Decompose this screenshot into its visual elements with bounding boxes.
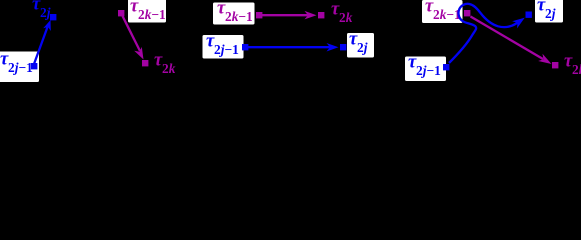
svg-text:2j: 2j <box>40 5 51 20</box>
node marker tau_2k-1 (diagram 4) <box>464 10 470 16</box>
svg-text:2k−1: 2k−1 <box>225 9 253 24</box>
wire: curved edge tau_2j-1 to tau_2j looping around tau_2k-1 (diagram 4) <box>449 4 520 63</box>
svg-text:2j−1: 2j−1 <box>214 42 239 57</box>
arrowhead at tau_2k (diagram 4) <box>538 54 551 64</box>
black page background <box>0 0 581 119</box>
arrowhead at tau_2j (diagram 4) <box>512 18 525 29</box>
svg-text:2k: 2k <box>339 10 353 25</box>
svg-text:2k: 2k <box>162 61 176 76</box>
node marker tau_2k (diagram 4) <box>552 62 558 68</box>
node marker tau_2j-1 (diagram 1) <box>31 63 37 69</box>
wire: edge tau_2k-1 to tau_2k (diagram 2) <box>123 16 141 51</box>
node marker tau_2j (diagram 4) <box>526 12 532 18</box>
white label background: tau_2j (diagram 4) <box>535 0 563 23</box>
white label background: tau_2k-1 (diagram 2) <box>128 0 166 23</box>
arrowhead at tau_2j (diagram 1) <box>43 20 51 31</box>
node marker tau_2j-1 (diagram 3 bottom) <box>242 44 248 50</box>
node marker tau_2k (diagram 3 top) <box>318 12 324 18</box>
svg-text:2j: 2j <box>357 40 368 55</box>
wire: edge tau_2j-1 to tau_2j (diagram 1) <box>34 27 48 64</box>
node marker tau_2k-1 (diagram 2) <box>118 10 124 16</box>
wire: edge tau_2k-1 to tau_2k (diagram 4) <box>471 17 544 60</box>
svg-text:2k: 2k <box>572 62 581 77</box>
white label background: tau_2j-1 (diagram 1) <box>0 52 39 83</box>
svg-text:2k−1: 2k−1 <box>433 7 461 22</box>
white label background: tau_2j-1 (diagram 4) <box>405 57 446 82</box>
svg-text:2j: 2j <box>545 6 556 21</box>
svg-text:2j−1: 2j−1 <box>416 63 441 78</box>
svg-text:2k−1: 2k−1 <box>138 7 166 22</box>
white label background: tau_2j-1 (diagram 3 bottom) <box>203 35 244 59</box>
white label background: tau_2j (diagram 3 bottom) <box>347 33 374 58</box>
node marker tau_2j-1 (diagram 4) <box>443 64 449 70</box>
arrowhead at tau_2k (diagram 2) <box>134 47 143 60</box>
white label background: tau_2k-1 (diagram 3 top) <box>213 3 255 25</box>
node marker tau_2j (diagram 3 bottom) <box>340 44 346 50</box>
wire: edge tau_2j-1 to tau_2j (diagram 3 bottom) <box>248 46 330 48</box>
node marker tau_2k-1 (diagram 3 top) <box>256 12 262 18</box>
svg-text:2j−1: 2j−1 <box>8 60 33 75</box>
arrowhead at tau_2j (diagram 3 bottom) <box>327 43 339 52</box>
wire: edge tau_2k-1 to tau_2k (diagram 3 top) <box>262 14 308 16</box>
node marker tau_2j (diagram 1) <box>50 14 56 20</box>
arrowhead at tau_2k (diagram 3 top) <box>305 11 317 20</box>
white label background: tau_2k-1 (diagram 4) <box>422 0 463 23</box>
node marker tau_2k (diagram 2) <box>142 60 148 66</box>
